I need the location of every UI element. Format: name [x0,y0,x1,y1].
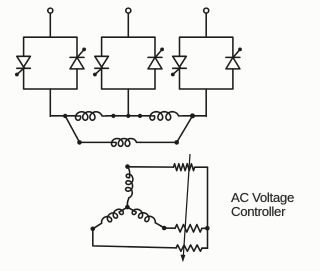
gate of T6 [234,50,240,57]
thyristor T4 (conducts up) [148,57,162,69]
junction node n1 (wye top) [125,164,130,169]
junction node n4 (on rail) [205,226,210,231]
wire R3 to rail corner [202,247,208,249]
wire terminal A lead [49,13,51,37]
wire R1 to rail [195,166,208,168]
wire top bus right segment [184,115,207,117]
gate of T2 [78,50,84,57]
enclosure box phase C [180,37,233,89]
wire R2 to rail [202,227,207,229]
gate of T3 [96,68,103,74]
inductor L1 [76,112,107,120]
wire right rail [202,167,208,248]
wire n3 to R2 [164,227,175,229]
gate of T4 [156,50,162,57]
resistor R1 [174,164,195,171]
inductor L2 [150,112,184,120]
junction node d1 [77,140,82,145]
resistor R3 [176,245,202,251]
wire terminal B lead [127,13,129,37]
thyristor T6 (conducts up) [226,57,240,69]
enclosure box phase B [102,37,155,89]
wire n1 to R1 [128,166,174,168]
junction node n2 [91,227,96,232]
junction node n0 (star point) [125,205,130,210]
winding L6 (right) [127,207,131,209]
wire diagonal left [65,116,79,142]
wire lower link left [80,141,113,143]
terminal C [204,8,209,13]
thyristor T1 (conducts down) [17,56,31,68]
caption text [231,191,294,220]
junction node a2 [111,114,115,118]
wire diagonal right [177,116,193,142]
junction node b2 [138,114,142,118]
terminal B [126,8,131,13]
wire phase C output drop [205,89,207,116]
winding L4 (vertical) [128,167,130,177]
inductor L3 [112,139,141,147]
thyristor T3 (conducts down) [95,56,109,68]
wire left rail [93,229,176,248]
resistor R2 [175,225,202,233]
thyristor T5 (conducts down) [173,56,187,68]
wire top bus middle segment [106,115,150,117]
enclosure box phase A [24,37,77,89]
wire phase A output drop [49,89,51,116]
junction node b [126,114,130,118]
junction node d2 [174,140,179,145]
junction node n3 [162,226,167,231]
gate of T5 [174,68,181,74]
wire phase B output drop [127,89,129,116]
winding L5 (left) [124,207,128,209]
ganged wiper arrow [183,154,190,255]
wire top bus left segment [50,115,76,117]
gate of T1 [18,68,25,74]
wire lower link right [141,141,177,143]
terminal A [48,8,53,13]
wire terminal C lead [205,13,207,37]
junction node c1 [190,113,195,118]
junction node a1 [63,114,67,118]
thyristor T2 (conducts up) [70,57,84,69]
